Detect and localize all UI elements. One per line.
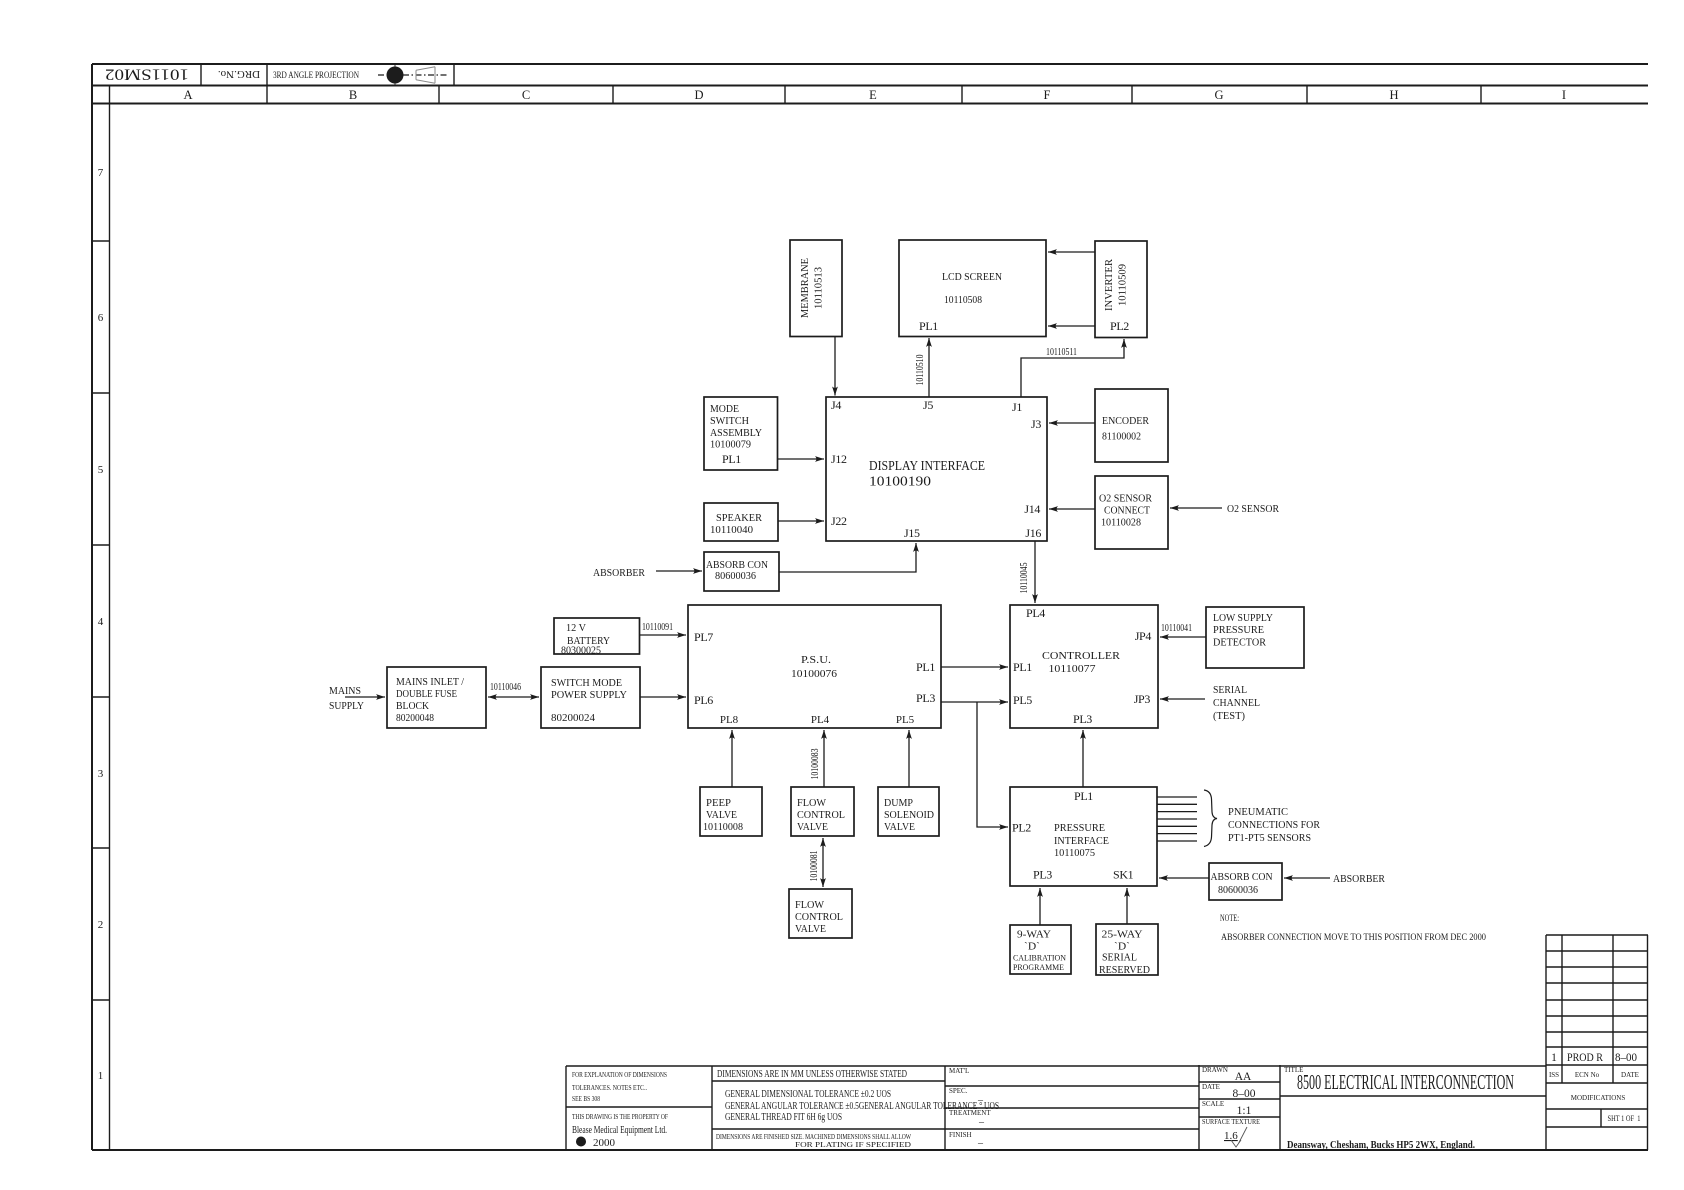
svg-text:SUPPLY: SUPPLY: [329, 700, 364, 712]
svg-text:PROD R: PROD R: [1567, 1052, 1603, 1064]
block MEMBRANE 10110513: [790, 240, 842, 337]
wire 10110045: J16 to controller PL4: [1034, 541, 1036, 603]
block PRESSURE INTERFACE 10110075: [1010, 787, 1157, 886]
svg-text:10110513: 10110513: [813, 267, 825, 309]
svg-text:MAT'L: MAT'L: [949, 1067, 969, 1075]
svg-text:CALIBRATION: CALIBRATION: [1013, 953, 1066, 963]
svg-text:J1: J1: [1012, 400, 1022, 414]
wire absorber right to absorb con lower: [1284, 877, 1330, 879]
block 25-WAY D SERIAL RESERVED: [1096, 924, 1158, 976]
svg-text:2000: 2000: [593, 1138, 615, 1149]
svg-text:MODIFICATIONS: MODIFICATIONS: [1571, 1094, 1626, 1102]
svg-text:PL2: PL2: [1110, 319, 1129, 333]
svg-text:PT1-PT5 SENSORS: PT1-PT5 SENSORS: [1228, 832, 1311, 844]
svg-text:PL6: PL6: [694, 693, 713, 707]
svg-text:DUMP: DUMP: [884, 797, 913, 809]
svg-text:A: A: [183, 88, 192, 102]
block ABSORB CON 80600036 (upper): [704, 552, 779, 591]
svg-text:10110075: 10110075: [1054, 847, 1095, 859]
wire encoder to J3: [1049, 422, 1095, 424]
svg-text:PL2: PL2: [1012, 821, 1031, 835]
svg-text:CONTROL: CONTROL: [797, 809, 845, 821]
block 12 V BATTERY 80300025: [554, 618, 640, 657]
svg-text:SPEAKER: SPEAKER: [716, 512, 763, 524]
svg-text:10110508: 10110508: [944, 294, 982, 306]
wire 10110091: battery to PSU PL7: [640, 634, 687, 636]
svg-text:BLOCK: BLOCK: [396, 700, 429, 712]
svg-text:ABSORBER CONNECTION MOVE TO TH: ABSORBER CONNECTION MOVE TO THIS POSITIO…: [1221, 933, 1486, 943]
svg-text:VALVE: VALVE: [884, 821, 915, 833]
svg-text:SERIAL: SERIAL: [1213, 684, 1247, 696]
svg-text:5: 5: [98, 464, 104, 476]
svg-text:MEMBRANE: MEMBRANE: [799, 258, 811, 318]
svg-text:LCD SCREEN: LCD SCREEN: [942, 271, 1002, 283]
svg-text:FOR EXPLANATION OF DIMENSIONS: FOR EXPLANATION OF DIMENSIONS: [572, 1071, 667, 1079]
svg-text:D: D: [694, 88, 703, 102]
svg-text:10100083: 10100083: [810, 749, 821, 780]
svg-text:–: –: [977, 1138, 984, 1149]
svg-text:PL4: PL4: [811, 714, 830, 726]
svg-text:8–00: 8–00: [1233, 1088, 1256, 1100]
svg-text:Blease Medical Equipment Ltd.: Blease Medical Equipment Ltd.: [572, 1125, 667, 1136]
svg-text:10110040: 10110040: [710, 524, 753, 536]
svg-text:GENERAL DIMENSIONAL TOLERANCE: GENERAL DIMENSIONAL TOLERANCE ±0.2 UOS: [725, 1089, 891, 1100]
svg-text:PL1: PL1: [916, 660, 935, 674]
svg-text:SWITCH: SWITCH: [710, 415, 749, 427]
svg-text:FINISH: FINISH: [949, 1131, 972, 1139]
svg-text:INVERTER: INVERTER: [1103, 258, 1115, 311]
svg-text:MAINS: MAINS: [329, 685, 361, 697]
wire 10100083: flow control valve to PSU PL4: [823, 730, 825, 787]
svg-text:J22: J22: [831, 514, 847, 528]
svg-text:B: B: [349, 88, 357, 102]
wire pressure interface PL1 to controller PL3: [1082, 730, 1084, 787]
svg-text:10110028: 10110028: [1101, 517, 1141, 529]
svg-text:PL1: PL1: [722, 452, 741, 466]
svg-text:–: –: [978, 1117, 985, 1128]
svg-text:C: C: [522, 88, 530, 102]
svg-text:PL8: PL8: [720, 714, 739, 726]
svg-text:7: 7: [98, 167, 104, 179]
block SWITCH MODE POWER SUPPLY 80200024: [541, 667, 640, 728]
svg-text:10110008: 10110008: [703, 821, 743, 833]
svg-text:10110511: 10110511: [1046, 347, 1077, 358]
svg-text:PL1: PL1: [1013, 660, 1032, 674]
svg-text:CONNECT: CONNECT: [1104, 505, 1150, 517]
svg-text:CONNECTIONS FOR: CONNECTIONS FOR: [1228, 819, 1321, 831]
svg-text:6: 6: [98, 312, 104, 324]
svg-text:JP4: JP4: [1135, 629, 1152, 643]
svg-text:SERIAL: SERIAL: [1102, 952, 1137, 964]
svg-text:J12: J12: [831, 452, 847, 466]
svg-text:ISS: ISS: [1549, 1071, 1559, 1079]
svg-text:80200024: 80200024: [551, 712, 596, 724]
block MODE SWITCH ASSEMBLY 10100079: [704, 397, 778, 470]
pneumatic connection wires: [1157, 797, 1197, 841]
wire absorb con to J15: [779, 543, 916, 572]
wire junction to pressure interface PL2: [977, 702, 1008, 827]
svg-text:CHANNEL: CHANNEL: [1213, 697, 1260, 709]
svg-text:80600036: 80600036: [1218, 884, 1258, 896]
svg-text:1: 1: [98, 1070, 104, 1082]
svg-text:–: –: [977, 1095, 984, 1106]
wire 10100081: flow control valves (double arrow): [822, 838, 824, 887]
block DUMP SOLENOID VALVE: [878, 787, 939, 836]
svg-text:8–00: 8–00: [1615, 1052, 1637, 1064]
svg-text:ECN No: ECN No: [1575, 1071, 1600, 1079]
block MAINS INLET / DOUBLE FUSE BLOCK 80200048: [387, 667, 486, 728]
block 9-WAY D CALIBRATION PROGRAMME: [1010, 925, 1071, 974]
svg-text:3: 3: [98, 768, 104, 780]
column letters: [183, 88, 1566, 102]
svg-text:1011SM02: 1011SM02: [105, 66, 189, 83]
svg-text:H: H: [1389, 88, 1398, 102]
svg-text:O2 SENSOR: O2 SENSOR: [1227, 503, 1280, 515]
svg-text:FLOW: FLOW: [797, 797, 827, 809]
svg-text:3RD ANGLE PROJECTION: 3RD ANGLE PROJECTION: [273, 71, 359, 81]
svg-text:G: G: [1214, 88, 1223, 102]
svg-text:DATE: DATE: [1202, 1083, 1220, 1091]
svg-text:10110077: 10110077: [1049, 663, 1097, 675]
svg-text:JP3: JP3: [1134, 692, 1151, 706]
block SPEAKER 10110040: [704, 503, 778, 541]
svg-text:J4: J4: [831, 398, 841, 412]
wire membrane to J4: [834, 337, 836, 396]
svg-text:POWER SUPPLY: POWER SUPPLY: [551, 689, 627, 701]
svg-text:J5: J5: [923, 398, 933, 412]
svg-text:DOUBLE FUSE: DOUBLE FUSE: [396, 688, 457, 700]
svg-text:DIMENSIONS ARE IN MM UNLESS OT: DIMENSIONS ARE IN MM UNLESS OTHERWISE ST…: [717, 1069, 907, 1080]
wire absorber to absorb con: [656, 570, 702, 572]
wire dump solenoid to PSU PL5: [908, 730, 910, 787]
svg-text:(TEST): (TEST): [1213, 710, 1245, 722]
svg-text:PEEP: PEEP: [706, 797, 731, 809]
svg-text:10100190: 10100190: [869, 475, 931, 490]
block PEEP VALVE 10110008: [700, 787, 762, 836]
svg-text:PL1: PL1: [919, 319, 938, 333]
block FLOW CONTROL VALVE (upper): [791, 787, 854, 836]
svg-text:DIMENSIONS ARE FINISHED SIZE.: DIMENSIONS ARE FINISHED SIZE. MACHINED D…: [716, 1133, 911, 1141]
svg-text:12 V: 12 V: [566, 622, 586, 634]
wire 10110511: display J1 to inverter PL2: [1021, 339, 1124, 397]
wire inverter to LCD (upper): [1048, 251, 1095, 253]
svg-text:SEE BS 308: SEE BS 308: [572, 1095, 600, 1103]
svg-text:SPEC.: SPEC.: [949, 1087, 968, 1095]
wire 10110041: detector to JP4: [1160, 636, 1206, 638]
svg-text:10110046: 10110046: [490, 682, 521, 693]
svg-text:J14: J14: [1024, 502, 1040, 516]
wire mode switch PL1 to J12: [778, 458, 825, 460]
svg-text:10110091: 10110091: [642, 622, 673, 633]
svg-text:MAINS INLET /: MAINS INLET /: [396, 676, 465, 688]
svg-text:E: E: [869, 88, 877, 102]
svg-text:SCALE: SCALE: [1202, 1100, 1224, 1108]
svg-text:FOR PLATING IF SPECIFIED: FOR PLATING IF SPECIFIED: [795, 1141, 911, 1149]
svg-text:PRESSURE: PRESSURE: [1213, 624, 1264, 636]
wire SMPS to PSU PL6: [640, 696, 686, 698]
svg-text:GENERAL THREAD FIT 6H 6g UOS: GENERAL THREAD FIT 6H 6g UOS: [725, 1112, 842, 1123]
wire serial channel to JP3: [1160, 698, 1205, 700]
svg-text:SHT 1 OF 1: SHT 1 OF 1: [1608, 1113, 1641, 1123]
svg-text:LOW SUPPLY: LOW SUPPLY: [1213, 612, 1273, 624]
svg-text:DETECTOR: DETECTOR: [1213, 637, 1267, 649]
svg-text:1: 1: [1551, 1052, 1557, 1064]
svg-text:F: F: [1044, 88, 1051, 102]
svg-text:VALVE: VALVE: [797, 821, 828, 833]
third angle projection symbol: [378, 65, 447, 85]
svg-text:SWITCH MODE: SWITCH MODE: [551, 677, 622, 689]
svg-text:PL3: PL3: [916, 691, 935, 705]
block LOW SUPPLY PRESSURE DETECTOR: [1206, 607, 1304, 668]
svg-text:80300025: 80300025: [561, 645, 601, 657]
svg-text:1:1: 1:1: [1237, 1105, 1252, 1117]
svg-text:TOLERANCES. NOTES ETC..: TOLERANCES. NOTES ETC..: [572, 1084, 647, 1092]
wire inverter to LCD (lower): [1048, 325, 1095, 327]
wire 25-way to pressure interface SK1: [1126, 888, 1128, 924]
svg-text:SOLENOID: SOLENOID: [884, 809, 934, 821]
svg-text:PRESSURE: PRESSURE: [1054, 822, 1105, 834]
block O2 SENSOR CONNECT 10110028: [1095, 476, 1168, 549]
svg-text:J3: J3: [1031, 417, 1041, 431]
block DISPLAY INTERFACE 10100190: [826, 397, 1047, 541]
svg-text:PL3: PL3: [1033, 868, 1052, 882]
svg-text:AA: AA: [1235, 1071, 1252, 1083]
svg-text:I: I: [1562, 88, 1566, 102]
svg-text:TREATMENT: TREATMENT: [949, 1109, 991, 1117]
revision table: [1546, 935, 1648, 1150]
svg-text:SURFACE TEXTURE: SURFACE TEXTURE: [1202, 1118, 1260, 1126]
block P.S.U. 10100076: [688, 605, 941, 728]
svg-text:PL5: PL5: [896, 714, 915, 726]
wire PEEP valve to PSU PL8: [731, 730, 733, 787]
svg-text:MODE: MODE: [710, 403, 739, 415]
wire 10110510: display J5 to LCD PL1: [928, 338, 930, 397]
wire speaker to J22: [778, 520, 824, 522]
title block grid: [566, 1065, 1546, 1150]
svg-text:10110509: 10110509: [1117, 264, 1129, 306]
svg-text:10110041: 10110041: [1161, 623, 1192, 634]
block FLOW CONTROL VALVE (lower): [789, 889, 852, 938]
svg-text:80600036: 80600036: [715, 570, 756, 582]
wire O2 connect to J14: [1049, 508, 1095, 510]
wire PSU PL3 to controller PL5: [941, 701, 1008, 703]
svg-text:SK1: SK1: [1113, 868, 1134, 882]
svg-text:81100002: 81100002: [1102, 431, 1141, 443]
svg-text:Deansway, Chesham, Bucks HP5 2: Deansway, Chesham, Bucks HP5 2WX, Englan…: [1287, 1140, 1475, 1151]
svg-text:VALVE: VALVE: [795, 923, 826, 935]
svg-text:O2 SENSOR: O2 SENSOR: [1099, 493, 1153, 505]
svg-text:8500 ELECTRICAL INTERCONNECTIO: 8500 ELECTRICAL INTERCONNECTION: [1297, 1070, 1514, 1094]
svg-text:J15: J15: [904, 526, 920, 540]
svg-text:DISPLAY INTERFACE: DISPLAY INTERFACE: [869, 458, 985, 473]
svg-text:DRAWN: DRAWN: [1202, 1066, 1228, 1074]
svg-text:2: 2: [98, 919, 104, 931]
wire mains supply to mains inlet: [345, 696, 385, 698]
svg-text:NOTE:: NOTE:: [1220, 914, 1239, 924]
wire 9-way to pressure interface PL3: [1039, 888, 1041, 925]
svg-text:INTERFACE: INTERFACE: [1054, 835, 1109, 847]
block CONTROLLER 10110077: [1010, 605, 1158, 728]
wire 10110046: mains inlet to SMPS (double arrow): [488, 696, 539, 698]
svg-text:10110510: 10110510: [915, 355, 926, 386]
svg-text:9-WAY: 9-WAY: [1017, 929, 1051, 941]
svg-text:FLOW: FLOW: [795, 899, 825, 911]
svg-text:ABSORBER: ABSORBER: [1333, 873, 1386, 885]
svg-text:RESERVED: RESERVED: [1099, 964, 1150, 976]
svg-text:PL4: PL4: [1026, 606, 1045, 620]
svg-text:ABSORBER: ABSORBER: [593, 567, 646, 579]
svg-text:ENCODER: ENCODER: [1102, 415, 1150, 427]
svg-text:80200048: 80200048: [396, 712, 434, 724]
wire O2 sensor to connect box: [1170, 507, 1222, 509]
svg-text:PROGRAMME: PROGRAMME: [1013, 962, 1064, 972]
svg-text:PL7: PL7: [694, 630, 713, 644]
svg-text:VALVE: VALVE: [706, 809, 737, 821]
svg-text:`D`: `D`: [1024, 941, 1040, 953]
copyright dot 2000: [576, 1137, 586, 1147]
block LCD SCREEN 10110508: [899, 240, 1046, 337]
svg-text:PNEUMATIC: PNEUMATIC: [1228, 806, 1288, 818]
svg-text:10110045: 10110045: [1019, 563, 1030, 594]
svg-text:THIS DRAWING IS THE PROPERTY O: THIS DRAWING IS THE PROPERTY OF: [572, 1113, 668, 1121]
svg-text:10100081: 10100081: [809, 851, 820, 882]
svg-text:J16: J16: [1025, 526, 1041, 540]
svg-text:P.S.U.: P.S.U.: [801, 654, 831, 666]
svg-text:ABSORB CON: ABSORB CON: [1211, 871, 1273, 883]
wire absorb con lower to pressure interface SK1 side: [1159, 877, 1209, 879]
block ABSORB CON 80600036 (lower): [1209, 863, 1282, 900]
svg-text:10100076: 10100076: [791, 668, 838, 680]
svg-text:4: 4: [98, 616, 104, 628]
svg-text:CONTROL: CONTROL: [795, 911, 843, 923]
wire PSU PL1 to controller PL1: [941, 666, 1008, 668]
svg-text:DATE: DATE: [1621, 1071, 1639, 1079]
svg-text:DRG.No.: DRG.No.: [218, 68, 260, 80]
svg-text:25-WAY: 25-WAY: [1102, 929, 1143, 941]
block INVERTER 10110509: [1095, 241, 1147, 338]
block ENCODER 81100002: [1095, 389, 1168, 462]
svg-text:ASSEMBLY: ASSEMBLY: [710, 427, 762, 439]
brace for pneumatic connections: [1204, 790, 1217, 847]
svg-text:PL1: PL1: [1074, 789, 1093, 803]
svg-text:PL3: PL3: [1073, 712, 1092, 726]
row numbers: [98, 167, 104, 1082]
svg-text:10100079: 10100079: [710, 439, 751, 451]
svg-text:CONTROLLER: CONTROLLER: [1042, 650, 1121, 662]
svg-text:PL5: PL5: [1013, 693, 1032, 707]
